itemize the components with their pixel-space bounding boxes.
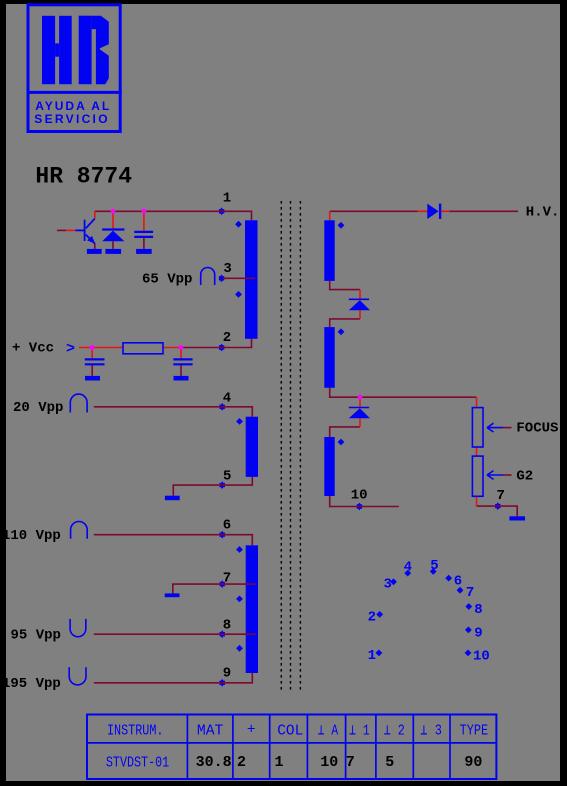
svg-text:⊥ 3: ⊥ 3 [420,723,442,739]
svg-text:+ Vcc: + Vcc [12,341,54,357]
svg-text:INSTRUM.: INSTRUM. [107,723,164,739]
svg-text:30.8: 30.8 [196,754,232,771]
svg-text:9: 9 [223,666,231,682]
svg-text:AYUDA AL: AYUDA AL [35,99,111,113]
svg-text:7: 7 [466,585,474,601]
svg-text:2: 2 [237,754,246,771]
svg-text:5: 5 [385,754,394,771]
svg-text:HR 8774: HR 8774 [35,163,132,189]
svg-text:6: 6 [223,517,231,533]
svg-text:10: 10 [320,754,338,771]
svg-text:8: 8 [223,617,231,633]
svg-text:6: 6 [454,573,462,589]
svg-text:SERVICIO: SERVICIO [34,112,110,126]
svg-text:5: 5 [430,558,438,574]
svg-text:10: 10 [351,487,368,503]
svg-text:1: 1 [368,648,376,664]
svg-text:7: 7 [346,754,355,771]
svg-text:>: > [66,340,75,357]
svg-text:1: 1 [275,754,284,771]
svg-text:COL: COL [277,723,303,739]
svg-text:195 Vpp: 195 Vpp [2,676,61,692]
svg-text:7: 7 [497,488,505,504]
svg-text:3: 3 [223,261,231,277]
svg-text:2: 2 [223,330,231,346]
svg-text:10: 10 [473,649,490,665]
svg-text:2: 2 [368,610,376,626]
svg-text:H.V.: H.V. [526,205,560,221]
svg-text:G2: G2 [516,468,533,484]
svg-text:⊥ 1: ⊥ 1 [349,723,369,739]
svg-text:⊥ A: ⊥ A [318,723,339,739]
svg-text:5: 5 [223,469,231,485]
svg-text:1: 1 [223,191,231,207]
svg-text:TYPE: TYPE [460,723,489,739]
svg-text:95 Vpp: 95 Vpp [11,628,61,644]
svg-text:65 Vpp: 65 Vpp [142,272,192,288]
svg-text:20 Vpp: 20 Vpp [13,400,63,416]
svg-text:4: 4 [223,391,231,407]
svg-text:110 Vpp: 110 Vpp [2,528,61,544]
svg-text:90: 90 [464,754,482,771]
svg-text:8: 8 [474,602,482,618]
svg-text:9: 9 [474,626,482,642]
svg-text:⊥ 2: ⊥ 2 [384,723,405,739]
svg-text:+: + [247,723,256,739]
svg-text:MAT: MAT [197,723,224,739]
svg-text:3: 3 [384,576,392,592]
svg-text:7: 7 [223,570,231,586]
svg-text:FOCUS: FOCUS [516,421,558,437]
svg-text:4: 4 [404,560,412,576]
svg-text:STVDST-01: STVDST-01 [106,756,169,772]
